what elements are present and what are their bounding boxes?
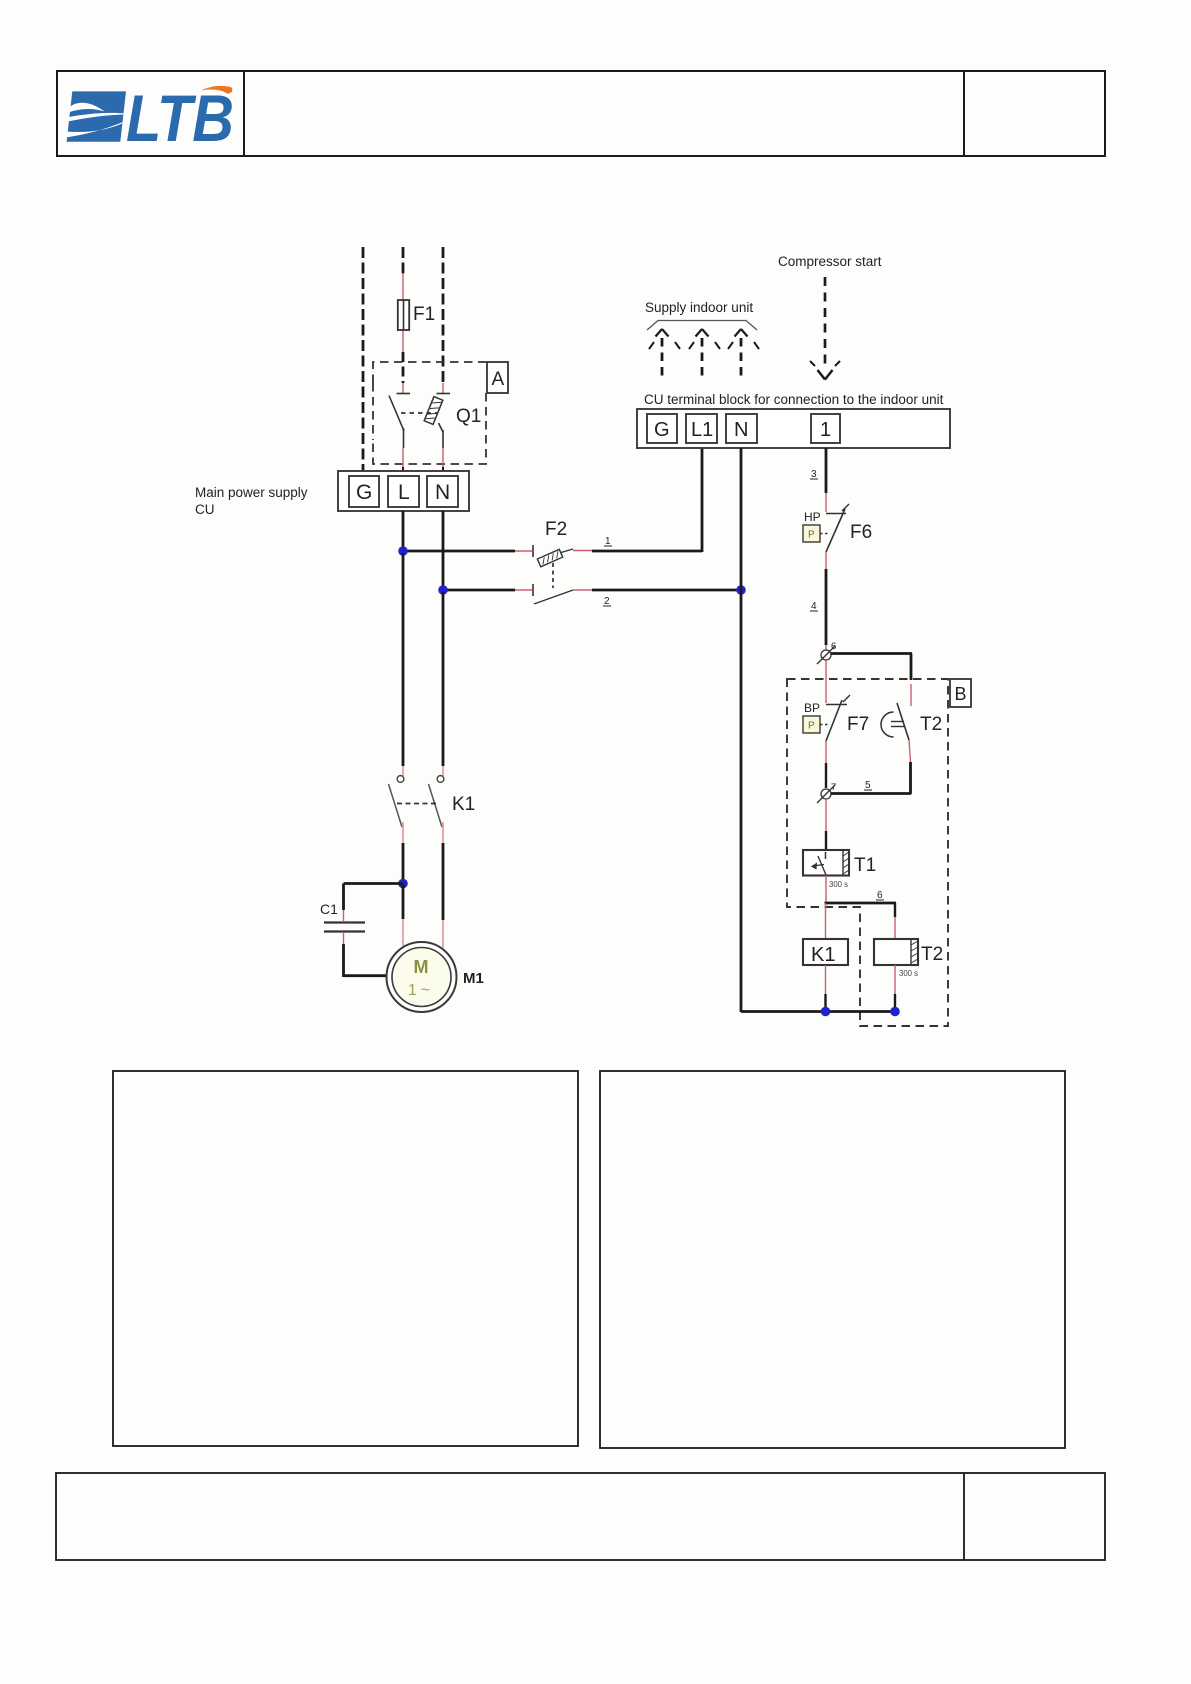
svg-text:L1: L1 <box>691 419 713 441</box>
wire below T1 <box>825 876 827 905</box>
wire K1 to motor junction <box>402 843 405 884</box>
fuse F1 <box>398 300 435 330</box>
svg-text:1 ~: 1 ~ <box>408 982 430 999</box>
bracket under supply indoor unit <box>647 321 757 331</box>
svg-text:M1: M1 <box>463 970 484 987</box>
supply dashed line N <box>442 247 445 383</box>
svg-text:F7: F7 <box>847 714 869 735</box>
svg-text:L: L <box>398 481 410 504</box>
svg-text:T1: T1 <box>854 855 876 876</box>
pressure switch F7 <box>803 695 869 741</box>
dashed arrow supply N <box>728 329 759 378</box>
supply dashed line L <box>402 247 405 274</box>
wire motor lead L <box>402 884 405 919</box>
svg-text:300 s: 300 s <box>899 969 918 978</box>
notes box right <box>600 1071 1065 1448</box>
timed contact T2 <box>881 684 942 794</box>
wire into terminal block <box>403 467 443 472</box>
svg-text:G: G <box>356 481 372 504</box>
logo LTB <box>66 81 234 155</box>
svg-text:K1: K1 <box>811 944 835 966</box>
coil K1 <box>803 939 848 966</box>
terminal 6 <box>817 641 836 664</box>
node rail T2 <box>890 1007 900 1017</box>
bottom rail <box>741 1010 896 1013</box>
wire 3 from terminal 1 <box>825 448 828 493</box>
header frame <box>57 71 1105 156</box>
svg-text:LTB: LTB <box>126 81 234 155</box>
svg-text:M: M <box>414 957 429 977</box>
breaker Q1 <box>389 383 481 448</box>
wire 1 vertical to L1 <box>701 448 704 552</box>
svg-text:CU: CU <box>195 502 215 517</box>
wire to T2 coil <box>894 903 896 917</box>
node rail K1 <box>821 1007 831 1017</box>
wire 2 horizontal <box>443 589 515 592</box>
timer T1 <box>803 850 876 889</box>
motor M1 <box>387 942 484 1012</box>
label box B <box>950 679 971 707</box>
svg-text:F1: F1 <box>413 304 435 325</box>
wire Q1 pole1 lower lead <box>403 448 443 467</box>
svg-text:A: A <box>492 369 505 390</box>
wire to K1 coil <box>825 903 827 939</box>
CU terminal block <box>637 409 950 448</box>
dashed arrow supply L1 <box>689 329 720 378</box>
wire into T1 <box>825 799 827 831</box>
svg-text:Main power supply: Main power supply <box>195 485 308 500</box>
svg-text:F6: F6 <box>850 522 872 543</box>
dashed arrow supply G <box>649 329 680 378</box>
supply dashed line L lower <box>402 352 405 383</box>
svg-text:BP: BP <box>804 701 820 715</box>
svg-text:6: 6 <box>831 641 836 652</box>
svg-text:1: 1 <box>820 419 831 441</box>
coil T2 <box>874 939 943 978</box>
svg-text:Compressor start: Compressor start <box>778 254 882 269</box>
node N junction <box>438 585 448 595</box>
svg-text:G: G <box>654 419 670 441</box>
svg-text:C1: C1 <box>320 901 338 917</box>
F2 mechanical link <box>552 563 554 588</box>
wire below F7 <box>825 741 827 763</box>
svg-text:F2: F2 <box>545 519 567 540</box>
svg-text:300 s: 300 s <box>829 880 848 889</box>
svg-text:N: N <box>435 481 450 504</box>
enclosure A left dash piece <box>372 383 374 440</box>
switch F2 pole 2 <box>533 584 573 604</box>
svg-text:T2: T2 <box>920 714 942 735</box>
svg-text:CU terminal block for connecti: CU terminal block for connection to the … <box>644 392 944 407</box>
footer frame <box>56 1473 1105 1560</box>
svg-text:P: P <box>808 721 815 732</box>
terminal block Main power supply CU <box>338 471 469 511</box>
dashed arrow compressor start <box>810 277 840 380</box>
svg-text:7: 7 <box>831 782 836 793</box>
wire K1 coil to rail <box>825 965 827 994</box>
pressure switch F6 <box>803 504 872 552</box>
svg-text:4: 4 <box>811 601 817 612</box>
wire L to node <box>402 511 405 553</box>
svg-text:Q1: Q1 <box>456 406 481 427</box>
contactor K1 contacts <box>389 553 476 843</box>
wire N pole to motor <box>442 843 445 920</box>
svg-text:2: 2 <box>604 596 610 607</box>
svg-text:B: B <box>955 684 967 704</box>
wire into F7 <box>825 660 827 703</box>
svg-text:5: 5 <box>865 780 871 791</box>
wire N to node <box>442 511 445 592</box>
node capacitor junction <box>398 879 408 889</box>
notes box left <box>113 1071 578 1446</box>
wire 1 horizontal <box>403 550 515 553</box>
node wire2-N trunk <box>736 585 746 595</box>
svg-text:Supply indoor unit: Supply indoor unit <box>645 300 753 315</box>
wire T2 coil to rail <box>894 965 896 994</box>
label box A <box>487 362 508 393</box>
svg-text:K1: K1 <box>452 794 475 815</box>
wire 4 <box>825 552 827 569</box>
wire 5 horizontal <box>831 792 911 795</box>
svg-text:HP: HP <box>804 510 821 524</box>
wire to T2 branch <box>831 652 912 655</box>
svg-text:3: 3 <box>811 469 817 480</box>
svg-text:N: N <box>734 419 748 441</box>
capacitor C1 <box>320 884 403 978</box>
node L junction <box>398 546 408 556</box>
svg-text:T2: T2 <box>921 944 943 965</box>
svg-text:6: 6 <box>877 890 883 901</box>
wire L fuse leads <box>402 274 404 301</box>
supply dashed line G <box>362 247 365 471</box>
svg-text:1: 1 <box>605 536 611 547</box>
enclosure A dashed box <box>373 362 487 464</box>
svg-text:P: P <box>808 530 815 541</box>
terminal 7 <box>817 782 836 803</box>
wire 6 split <box>825 902 897 905</box>
N trunk vertical <box>740 448 743 1012</box>
enclosure B dashed outline <box>787 679 948 1026</box>
switch F2 pole 1 <box>533 545 573 567</box>
